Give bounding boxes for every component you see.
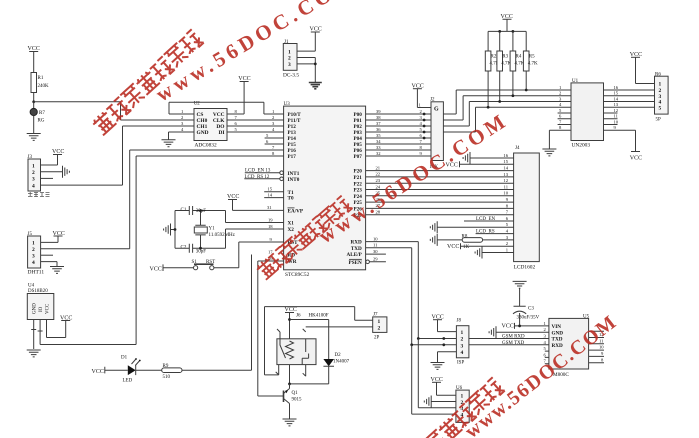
U5 right side stubs <box>589 331 604 363</box>
ground at Q1 emitter <box>283 419 297 426</box>
svg-text:IO: IO <box>39 306 44 312</box>
wire relay common contact loop to J7 pin1 <box>265 307 373 375</box>
junction dot at J1 pin3 <box>314 63 317 66</box>
wire ADC DI to MCU P13 <box>227 131 284 133</box>
ground left at LCD pin1 <box>475 247 482 259</box>
connector J5 DHT11 <box>28 232 45 276</box>
svg-text:15: 15 <box>268 187 273 192</box>
wire DS18B20 GND lead to ground <box>31 320 36 350</box>
svg-text:8: 8 <box>235 109 238 114</box>
svg-text:1: 1 <box>32 241 35 247</box>
crystal junction dots <box>199 209 202 212</box>
svg-text:13: 13 <box>503 172 508 177</box>
svg-text:37: 37 <box>376 121 381 126</box>
wire crystal left leg <box>171 211 176 249</box>
wire DS18B20 IO to MCU P17 <box>38 156 284 345</box>
svg-text:R4: R4 <box>516 55 522 60</box>
svg-text:P17: P17 <box>288 154 297 160</box>
svg-text:11: 11 <box>373 243 378 248</box>
svg-text:2: 2 <box>544 327 547 332</box>
svg-text:TXD: TXD <box>351 246 362 252</box>
PSEN bubble <box>366 260 370 264</box>
svg-text:4: 4 <box>559 102 562 107</box>
svg-text:3: 3 <box>32 177 35 183</box>
wire P27 to LCD D0 <box>366 214 514 216</box>
svg-text:2: 2 <box>32 170 35 176</box>
svg-text:7: 7 <box>506 210 509 215</box>
svg-text:36: 36 <box>376 127 381 132</box>
svg-text:21: 21 <box>376 165 381 170</box>
svg-text:Q1: Q1 <box>292 391 299 396</box>
wire J5 pin3 stub <box>41 254 53 256</box>
svg-text:11.0592MHz: 11.0592MHz <box>209 233 236 238</box>
wire S1 to MCU RST pin9 <box>214 242 284 268</box>
resistor R4 4.7K <box>510 31 525 95</box>
wire DS18B20 VCC lead <box>47 320 66 338</box>
wire J8 pin1 to VCC <box>438 320 457 332</box>
svg-text:EA/VP: EA/VP <box>288 209 304 215</box>
wire U6 pin1 to VCC <box>437 382 456 395</box>
svg-text:P23: P23 <box>353 188 362 194</box>
svg-text:VCC: VCC <box>92 369 104 375</box>
wire P05 row to J2 <box>366 143 431 145</box>
svg-text:X1: X1 <box>288 221 295 227</box>
svg-text:D1: D1 <box>121 356 128 361</box>
resistor R2 4.7K <box>485 31 499 107</box>
svg-text:LCD1602: LCD1602 <box>514 264 536 270</box>
svg-text:3: 3 <box>420 115 423 120</box>
svg-text:2: 2 <box>420 109 423 114</box>
junction dots pullups to bus <box>487 89 528 109</box>
resistor network J2 10K <box>430 98 444 171</box>
svg-text:9: 9 <box>614 125 617 130</box>
svg-text:2: 2 <box>32 247 35 253</box>
VCC at J1 <box>310 27 322 33</box>
switch S1 RST <box>192 260 216 270</box>
svg-text:4: 4 <box>32 260 35 266</box>
svg-text:4: 4 <box>181 127 184 132</box>
svg-text:R5: R5 <box>529 55 535 60</box>
svg-text:3: 3 <box>272 121 275 126</box>
svg-text:10: 10 <box>503 191 508 196</box>
svg-text:22: 22 <box>376 172 381 177</box>
transistor Q1 9015 <box>284 384 303 419</box>
svg-text:16: 16 <box>503 153 508 158</box>
svg-text:31: 31 <box>267 205 272 210</box>
wire J8 pin4 to ground <box>438 352 457 363</box>
wire P06 row to J2 <box>366 149 431 151</box>
wire LCD pin16 to ground <box>470 157 514 159</box>
svg-text:6: 6 <box>559 114 562 119</box>
relay pin marks <box>276 329 306 376</box>
svg-text:3: 3 <box>506 235 509 240</box>
svg-text:9: 9 <box>270 237 273 242</box>
net GSM_RXD wire MCU RXD to U5 TXD <box>418 335 549 340</box>
svg-text:3: 3 <box>32 254 35 260</box>
svg-text:LED: LED <box>123 379 133 384</box>
wire U1 pin9 COM to VCC <box>604 130 636 151</box>
wire RG node to ADC CH0 <box>34 102 194 120</box>
svg-text:GND: GND <box>552 330 564 336</box>
photoresistor R7 RG <box>30 102 45 134</box>
MCU right pin names <box>347 112 363 266</box>
wire EA/VP to VCC <box>233 200 284 211</box>
connector J3 soil moisture <box>28 155 41 191</box>
watermark chinese run 1 <box>91 29 204 136</box>
svg-text:23: 23 <box>376 178 381 183</box>
svg-text:5: 5 <box>659 106 662 112</box>
svg-text:G: G <box>434 107 439 113</box>
svg-text:5: 5 <box>506 222 509 227</box>
wire U6 pin4 from TXD line <box>412 345 456 414</box>
svg-text:4.7K: 4.7K <box>528 62 538 67</box>
svg-text:2: 2 <box>288 56 291 62</box>
svg-text:6: 6 <box>420 133 423 138</box>
svg-text:RXD: RXD <box>351 240 362 246</box>
ADC U2 ADC0832 <box>194 102 227 149</box>
svg-text:35: 35 <box>376 133 381 138</box>
wire R9 to MCU P37 pin17 <box>182 255 252 371</box>
svg-text:RG: RG <box>38 119 45 124</box>
svg-text:12: 12 <box>503 178 508 183</box>
watermark url run 1 <box>152 0 361 107</box>
MCU left pin number labels <box>266 109 275 261</box>
MCU serial pin numbers <box>373 236 378 261</box>
wire J3 pin1 to VCC <box>41 155 58 166</box>
LCD connector J4 LCD1602 <box>514 146 540 270</box>
svg-text:14: 14 <box>614 96 619 101</box>
resistor R3 4.7K <box>497 31 512 101</box>
svg-text:4: 4 <box>32 183 35 189</box>
wire P26 to LCD D1 <box>366 207 514 209</box>
label soil moisture (CJK approximated) <box>28 192 50 197</box>
P2 bus pin numbers <box>376 165 381 214</box>
svg-text:DI: DI <box>219 130 225 136</box>
svg-text:VCC: VCC <box>46 303 51 314</box>
connector J8 ISP <box>456 319 469 366</box>
connector J7 2P <box>373 312 387 340</box>
crystal circuit: C1 <box>175 206 226 215</box>
svg-text:DC-3.5: DC-3.5 <box>283 72 299 78</box>
watermark url run 2 <box>314 108 513 249</box>
svg-text:1: 1 <box>378 319 381 325</box>
svg-text:2: 2 <box>559 91 562 96</box>
GSM module U5 <box>549 315 590 378</box>
svg-text:9: 9 <box>506 197 509 202</box>
wire U1 pin16 to R6 pin2 <box>604 89 655 91</box>
svg-text:240K: 240K <box>38 84 50 89</box>
resistor R9 510 <box>162 364 182 380</box>
svg-text:15: 15 <box>503 159 508 164</box>
ground at ADC GND <box>162 140 176 147</box>
svg-text:VCC: VCC <box>447 244 459 250</box>
ground below RG <box>27 134 41 141</box>
ADC pin number labels right <box>235 109 238 132</box>
J4 pin number labels <box>503 153 508 253</box>
svg-text:6: 6 <box>266 139 269 144</box>
wire LCD pin5 RW to ground <box>437 226 513 228</box>
svg-text:5: 5 <box>559 108 562 113</box>
svg-text:34: 34 <box>376 139 381 144</box>
ground left at U5 GND <box>489 326 496 338</box>
net label LCD_RS at LCD pin4 <box>476 230 514 235</box>
watermark chinese run 2 <box>255 196 352 281</box>
svg-text:1: 1 <box>461 394 464 400</box>
svg-text:6: 6 <box>506 216 509 221</box>
connector U6 serial <box>456 386 469 422</box>
svg-text:1: 1 <box>288 49 291 55</box>
VCC at U6 <box>431 377 443 383</box>
svg-text:12: 12 <box>614 108 619 113</box>
svg-text:1: 1 <box>559 85 562 90</box>
svg-text:39: 39 <box>376 109 381 114</box>
MCU left pin names <box>288 112 304 265</box>
wire MCU TXD down to GSM_TXD <box>366 248 412 345</box>
svg-text:4: 4 <box>461 350 464 356</box>
ground at J8 pin4 <box>431 363 445 370</box>
wire X1 to MCU <box>226 211 284 223</box>
svg-text:4: 4 <box>506 229 509 234</box>
svg-text:C3: C3 <box>528 307 534 312</box>
MCU right P0 bus pin numbers <box>376 109 381 156</box>
svg-text:1: 1 <box>32 163 35 169</box>
svg-text:3: 3 <box>288 62 291 68</box>
net label LCD_EN to INT1 <box>245 169 284 175</box>
svg-text:9: 9 <box>420 151 423 156</box>
VCC rail for pullups R2-R5 <box>488 14 526 31</box>
crystal Y1 11.0592MHz <box>194 211 235 249</box>
wire P25 to LCD D2 <box>366 201 514 203</box>
VCC at ADC <box>238 76 250 82</box>
svg-text:33: 33 <box>376 145 381 150</box>
wire U5 GND to ground <box>496 331 549 333</box>
VCC at J3 <box>52 149 64 155</box>
wire P22 to LCD D5 <box>366 182 514 184</box>
U5 unused stubs pins 5-7 <box>545 351 549 364</box>
svg-text:5: 5 <box>544 346 547 351</box>
MCU U3 STC89C52 <box>284 102 366 278</box>
U1 output stubs pins 10-12 <box>604 113 618 125</box>
J2 pin number labels <box>419 102 423 156</box>
svg-text:13: 13 <box>614 102 619 107</box>
svg-text:3: 3 <box>461 343 464 349</box>
svg-text:J4: J4 <box>515 146 520 151</box>
svg-text:D2: D2 <box>335 353 342 358</box>
U1 left pin numbers <box>559 85 562 130</box>
svg-text:VIN: VIN <box>552 324 562 330</box>
ground below DS18B20 <box>27 350 41 357</box>
svg-text:1: 1 <box>659 82 662 88</box>
junction dot coil bottom <box>288 383 291 386</box>
LED D1 <box>121 356 141 384</box>
svg-text:1: 1 <box>544 321 547 326</box>
svg-text:16: 16 <box>614 85 619 90</box>
ground right-pointing at J3 pin2 <box>63 166 70 178</box>
svg-text:1N4007: 1N4007 <box>333 359 350 364</box>
svg-text:R2: R2 <box>491 55 497 60</box>
svg-text:P21: P21 <box>353 175 362 181</box>
svg-text:6: 6 <box>544 352 547 357</box>
connector J1 DC-3.5 power jack <box>283 40 299 78</box>
wire ADC CLK to MCU P11 <box>227 119 284 121</box>
svg-text:5P: 5P <box>656 118 662 123</box>
junction dot crystal ground <box>174 228 177 231</box>
svg-text:30: 30 <box>373 249 378 254</box>
junction dot C3 to VIN <box>518 325 521 328</box>
wire J1 pin1 to VCC <box>297 32 315 51</box>
ground left at LCD pin16 <box>463 152 470 164</box>
svg-text:R7: R7 <box>39 111 45 116</box>
svg-text:VCC: VCC <box>150 266 162 272</box>
svg-text:HK4100F: HK4100F <box>309 314 329 319</box>
driver U1 UN2003 <box>571 79 604 149</box>
svg-text:29: 29 <box>373 257 378 262</box>
svg-text:38: 38 <box>376 115 381 120</box>
VCC below U1 pin9 <box>630 152 642 162</box>
svg-text:2: 2 <box>506 241 509 246</box>
svg-text:1: 1 <box>461 330 464 336</box>
svg-text:8: 8 <box>601 357 604 362</box>
svg-text:GND: GND <box>197 130 209 136</box>
svg-text:4: 4 <box>272 127 275 132</box>
wire P20 to LCD D7 <box>366 170 514 172</box>
wire P04 row to J2 <box>366 137 431 139</box>
svg-text:3: 3 <box>181 121 184 126</box>
VCC tap for LED D1 <box>92 367 128 375</box>
svg-text:7: 7 <box>559 119 562 124</box>
relay J6 HK4100F <box>277 314 329 365</box>
svg-text:10: 10 <box>373 236 378 241</box>
svg-text:3: 3 <box>559 96 562 101</box>
wire ADC DO to MCU P12 <box>227 125 284 127</box>
ADC pin number labels left <box>181 109 184 132</box>
svg-text:U4: U4 <box>28 284 35 289</box>
VCC at J8 <box>432 314 444 320</box>
svg-text:32: 32 <box>376 151 381 156</box>
VCC tap U5 VIN <box>502 323 549 330</box>
VCC rail for R1 photoresistor divider <box>28 46 40 73</box>
svg-text:11: 11 <box>614 114 619 119</box>
svg-text:ALE/P: ALE/P <box>347 252 363 258</box>
wire relay NO contact to J7 pin2 <box>306 326 373 328</box>
wire ADC VCC pin8 <box>227 82 244 115</box>
wire P02 bus row <box>366 102 571 127</box>
svg-text:7: 7 <box>272 145 275 150</box>
VCC tap LCD pin15 <box>446 161 514 168</box>
wire J5 pin1 to VCC <box>41 236 58 242</box>
wire X2 to MCU <box>226 229 284 248</box>
VCC tap for reset switch <box>150 264 194 272</box>
svg-text:2: 2 <box>378 326 381 332</box>
capacitor C3 330uF/35V with top ground <box>513 281 540 326</box>
svg-text:INT1: INT1 <box>288 171 300 177</box>
wire J1 pin2 pin3 to ground <box>297 58 315 83</box>
svg-text:P22: P22 <box>353 181 362 187</box>
flyback diode D2 1N4007 <box>290 320 350 384</box>
VCC at J2 <box>412 83 424 89</box>
wire U1 pin13 to R6 pin5 <box>604 106 655 108</box>
svg-text:5: 5 <box>420 127 423 132</box>
wire LCD pin1 to ground <box>482 252 514 254</box>
svg-text:2P: 2P <box>374 336 380 341</box>
svg-text:8: 8 <box>420 145 423 150</box>
svg-text:PSEN: PSEN <box>349 260 363 266</box>
resistor R1 240K <box>31 73 49 102</box>
relay VCC tap <box>285 307 297 339</box>
wire U6 pin2 to ground <box>431 401 456 403</box>
wire relay coil bottom node <box>290 365 329 384</box>
watermark chinese run 3 <box>423 377 504 438</box>
svg-text:19: 19 <box>268 217 273 222</box>
svg-text:4: 4 <box>420 121 423 126</box>
ground at J5 pin4 <box>50 267 64 274</box>
wire P07 row to J2 <box>366 155 431 157</box>
MCU pin stubs P14 P15 T1 T0 ALE PSEN <box>264 138 386 262</box>
wire J3 pin2 to ground <box>41 171 63 173</box>
net label LCD_RS to INT0 <box>244 175 283 181</box>
VCC at R6 <box>630 52 642 58</box>
svg-text:1: 1 <box>272 109 275 114</box>
svg-text:18: 18 <box>268 224 273 229</box>
svg-text:9015: 9015 <box>292 398 303 403</box>
VCC at J5 <box>53 231 65 237</box>
wire Q1 base to MCU P36 pin16 <box>258 261 284 396</box>
U5 right pin numbers <box>599 332 604 362</box>
svg-text:8: 8 <box>559 125 562 130</box>
junction dots at J2 taps <box>423 113 426 140</box>
U1 unused input stubs pins 5-7 <box>558 113 571 125</box>
sensor U4 DS18B20 <box>27 284 54 320</box>
wire P00 bus row <box>366 90 571 114</box>
VCC tap LCD pin2 <box>447 243 514 250</box>
svg-text:14: 14 <box>503 166 508 171</box>
connector R6 5P <box>655 73 669 123</box>
svg-text:8: 8 <box>272 151 275 156</box>
svg-text:11: 11 <box>504 184 509 189</box>
wire LED to R9 <box>136 369 162 371</box>
wire P21 to LCD D6 <box>366 176 514 178</box>
wire U1 pin8 to ground <box>549 130 571 149</box>
svg-text:J8: J8 <box>457 319 462 324</box>
resistor R5 4.7K <box>523 31 538 90</box>
wire P03 bus row <box>366 107 571 132</box>
svg-text:4: 4 <box>544 340 547 345</box>
svg-text:VCC: VCC <box>630 156 642 162</box>
svg-text:7: 7 <box>235 115 238 120</box>
wire MCU RXD down to GSM_RXD <box>366 242 419 339</box>
ground left at U6 pin2 <box>424 396 431 408</box>
net GSM_TXD wire MCU TXD to U5 RXD <box>412 341 549 346</box>
ground at J1 <box>309 83 322 89</box>
wire J5 pin4 to ground <box>41 262 57 267</box>
junction dot relay VCC node <box>288 318 291 321</box>
net label LCD_EN at LCD pin6 <box>464 217 514 222</box>
svg-text:X2: X2 <box>288 227 295 233</box>
wire P23 to LCD D4 <box>366 189 514 191</box>
svg-text:R3: R3 <box>502 55 508 60</box>
ground left at LCD pin5 <box>430 221 437 233</box>
wire ADC GND pin4 to ground <box>169 132 195 140</box>
watermark url run 3 <box>461 311 622 438</box>
svg-text:6: 6 <box>235 121 238 126</box>
svg-text:330uF/35V: 330uF/35V <box>517 316 540 321</box>
node divider junction <box>32 100 35 103</box>
junction dots on pullup rail <box>498 30 514 33</box>
wire J2 pin1 to VCC <box>417 89 431 108</box>
svg-text:2: 2 <box>272 115 275 120</box>
svg-text:10: 10 <box>614 119 619 124</box>
svg-text:9: 9 <box>601 351 604 356</box>
